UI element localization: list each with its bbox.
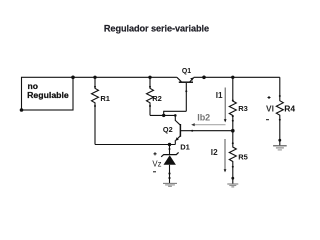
current arrow I1 — [216, 88, 227, 123]
node R3 top — [231, 76, 234, 79]
svg-text:VI: VI — [266, 104, 274, 114]
current arrow Ib2 — [191, 112, 225, 126]
node R2 top — [148, 76, 151, 79]
wire link low — [150, 114, 175, 116]
wire link stub — [163, 111, 165, 116]
wire bottom left — [95, 144, 175, 146]
svg-text:R4: R4 — [284, 104, 295, 114]
label VI minus — [266, 119, 269, 121]
node Q2 collector corner — [174, 114, 177, 117]
resistor R5 — [229, 131, 247, 184]
svg-text:D1: D1 — [180, 143, 190, 152]
svg-text:I2: I2 — [211, 148, 218, 157]
transistor Q2 — [163, 115, 233, 144]
node R1 top — [93, 76, 96, 79]
svg-text:Vz: Vz — [152, 159, 161, 168]
ground under D1 — [163, 183, 177, 186]
ground under R5 — [227, 184, 238, 187]
ground under R4 — [273, 146, 287, 150]
label Vz plus — [154, 152, 157, 155]
svg-text:Q1: Q1 — [182, 68, 191, 75]
node rail dot — [202, 76, 206, 80]
label VI plus — [268, 96, 271, 99]
zener diode D1 — [161, 143, 190, 183]
svg-text:R1: R1 — [100, 94, 110, 103]
svg-text:Regulador serie-variable: Regulador serie-variable — [104, 24, 209, 34]
node box top-right — [71, 76, 75, 80]
source box no Regulable — [22, 77, 74, 110]
wire link high — [164, 110, 187, 112]
current arrow I2 — [211, 139, 227, 172]
svg-text:Regulable: Regulable — [27, 91, 69, 99]
node zener top — [168, 143, 171, 146]
svg-text:no: no — [28, 82, 38, 91]
svg-text:Q2: Q2 — [163, 125, 173, 134]
svg-text:R2: R2 — [152, 94, 162, 103]
node box bottom-left — [20, 108, 24, 112]
wire top rail right — [194, 76, 280, 78]
transistor Q1 — [177, 68, 194, 111]
label Vz minus — [153, 171, 156, 173]
node divider — [231, 129, 235, 133]
resistor R1 — [92, 77, 110, 144]
svg-text:Ib2: Ib2 — [197, 112, 210, 122]
svg-text:I1: I1 — [216, 91, 223, 100]
resistor R4 — [276, 77, 295, 145]
resistor R2 — [147, 77, 162, 115]
svg-text:R5: R5 — [238, 152, 248, 161]
wire top rail left — [73, 76, 177, 78]
node link — [162, 114, 165, 117]
svg-text:R3: R3 — [238, 104, 248, 113]
resistor R3 — [229, 77, 247, 130]
